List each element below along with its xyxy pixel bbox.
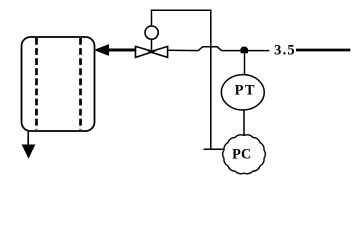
signal wire: right vertical down to PC <box>210 10 212 150</box>
instrument PT (pressure transmitter) <box>221 75 264 110</box>
svg-text:3.5: 3.5 <box>274 42 296 58</box>
thick signal wire right <box>296 49 350 52</box>
instrument PC (pressure controller, scalloped) <box>223 135 266 174</box>
pipe wire: junction to label <box>248 50 269 52</box>
junction node (dot) <box>241 47 249 54</box>
inlet arrowhead into tank (left) <box>95 45 108 55</box>
thick inlet pipe wire (arrow to valve) <box>108 49 137 52</box>
wire: PT down to PC <box>243 110 245 137</box>
signal wire: actuator up <box>151 10 153 26</box>
signal wire: top horizontal <box>151 9 212 11</box>
valve stem wire <box>151 40 153 51</box>
tank internal dashed line (left) <box>35 38 38 130</box>
control valve V1 (bowtie body) <box>136 46 168 57</box>
pipe wire: hop to junction <box>222 50 242 52</box>
tank outlet wire (down stem) <box>27 131 29 147</box>
svg-text:PC: PC <box>232 146 251 162</box>
tank outlet arrowhead (down) <box>22 145 34 158</box>
pipe wire: valve to hop <box>168 49 199 51</box>
tank T1 (vessel outline) <box>22 37 95 131</box>
svg-text:PT: PT <box>235 82 256 98</box>
tank internal dashed line (right) <box>79 38 82 130</box>
hop (line crossover bump) <box>198 47 221 51</box>
valve actuator (diaphragm circle) <box>145 26 158 39</box>
wire: junction down to PT <box>244 52 246 76</box>
signal wire: connector into PC <box>204 148 225 150</box>
